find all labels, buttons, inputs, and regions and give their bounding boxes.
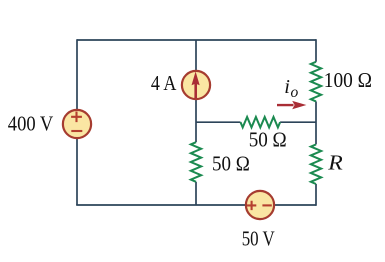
wire right upper [315, 39, 317, 62]
voltage source V1 400V circle [63, 110, 91, 138]
wire top [77, 39, 316, 41]
wire right middle [315, 101, 317, 144]
io arrow head [292, 101, 306, 109]
resistor 50 ohm horizontal [241, 117, 281, 127]
wire bottom [76, 204, 316, 206]
svg-text:50 V: 50 V [242, 227, 275, 251]
resistor R [311, 144, 321, 184]
current source I1 4A circle [182, 71, 210, 99]
svg-text:io: io [284, 76, 298, 101]
wire middle horizontal right [280, 121, 316, 123]
io arrow shaft [277, 104, 294, 106]
V2 plus sign [247, 201, 256, 210]
V1 minus sign [71, 130, 82, 132]
I1 arrow head [192, 72, 200, 86]
V1 plus sign [71, 112, 82, 123]
svg-text:4 A: 4 A [151, 71, 177, 95]
voltage source V2 50V circle [246, 191, 274, 219]
svg-text:R: R [327, 150, 343, 174]
wire middle branch upper [195, 40, 197, 142]
resistor 100 ohm [311, 62, 321, 102]
wire left [76, 39, 78, 205]
svg-text:50 Ω: 50 Ω [249, 127, 287, 151]
resistor 50 ohm vertical [191, 142, 201, 182]
V2 minus sign [262, 204, 271, 206]
wire middle branch lower [195, 182, 197, 205]
svg-text:400 V: 400 V [8, 111, 54, 135]
I1 arrow shaft [194, 84, 197, 99]
wire right lower [315, 184, 317, 206]
svg-text:50 Ω: 50 Ω [212, 151, 250, 175]
svg-text:100 Ω: 100 Ω [324, 68, 372, 92]
wire middle horizontal left [196, 121, 241, 123]
